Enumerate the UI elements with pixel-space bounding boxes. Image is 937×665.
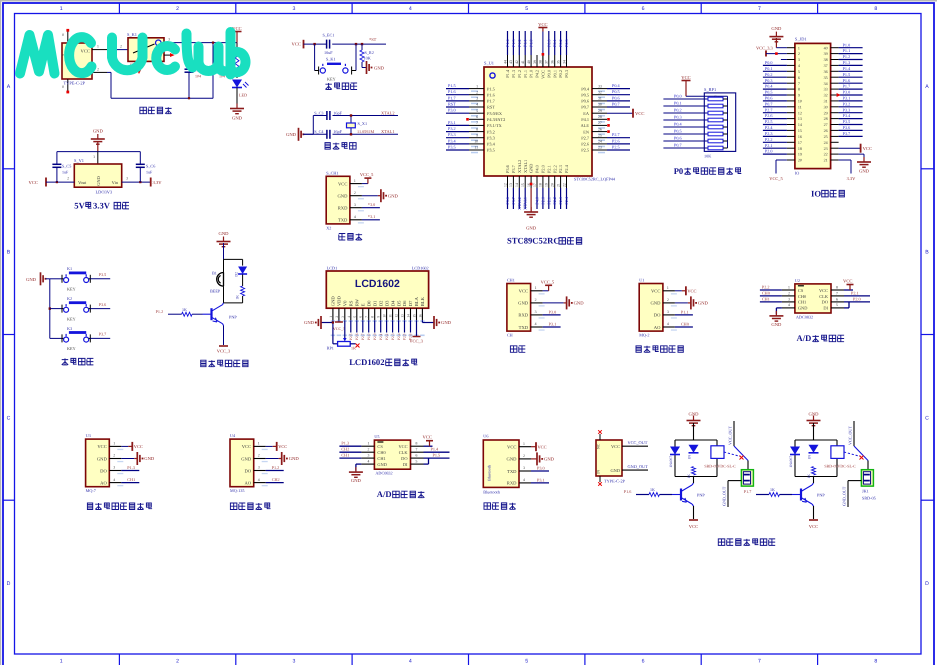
svg-text:S_JD1: S_JD1 [795,37,807,42]
svg-text:29: 29 [598,109,602,113]
svg-text:3: 3 [113,466,115,470]
svg-text:8: 8 [798,87,800,92]
svg-text:P3.1: P3.1 [549,321,557,326]
svg-text:CH1: CH1 [507,278,515,283]
svg-text:7: 7 [476,121,478,125]
svg-text:GND: GND [388,193,399,198]
svg-text:VCC: VCC [519,289,528,294]
svg-text:5: 5 [798,69,800,74]
svg-text:P0.2: P0.2 [558,39,563,47]
svg-text:U1: U1 [639,278,644,283]
svg-text:1: 1 [476,84,478,88]
svg-text:TYPE-C-2P: TYPE-C-2P [64,81,86,86]
svg-text:GND: GND [518,301,529,306]
svg-text:21: 21 [824,158,828,163]
svg-text:VCC_5: VCC_5 [333,326,345,331]
svg-text:KEY: KEY [327,77,336,82]
svg-text:20: 20 [798,158,802,163]
svg-text:P2.6: P2.6 [612,138,620,143]
svg-text:6: 6 [359,316,363,318]
svg-text:VCC: VCC [338,181,347,186]
svg-text:P3.0/RX: P3.0/RX [487,111,503,116]
svg-text:1: 1 [258,442,260,446]
svg-text:7: 7 [758,659,761,665]
svg-text:4: 4 [476,103,478,107]
svg-text:1: 1 [60,659,63,665]
svg-text:P1.3: P1.3 [843,60,851,65]
svg-text:2: 2 [113,454,115,458]
svg-text:22: 22 [824,152,828,157]
svg-text:P1.5: P1.5 [433,453,441,458]
svg-text:P3.6: P3.6 [505,197,510,205]
svg-text:ADC0832: ADC0832 [375,471,392,476]
svg-text:P2.1: P2.1 [765,143,773,148]
svg-text:MQ-2: MQ-2 [639,333,649,338]
svg-text:P0.5: P0.5 [581,92,589,97]
svg-text:P0.2: P0.2 [765,72,773,77]
svg-text:P2.2: P2.2 [552,197,557,205]
svg-text:22: 22 [562,183,566,187]
svg-text:K3: K3 [67,326,72,331]
svg-text:39: 39 [824,51,828,56]
svg-text:VCC_3: VCC_3 [217,348,231,353]
svg-text:28: 28 [598,115,602,119]
svg-text:20: 20 [551,183,555,187]
svg-text:1N4007: 1N4007 [789,456,793,468]
svg-text:1K: 1K [182,307,187,312]
svg-text:XTAL2: XTAL2 [381,110,395,115]
svg-text:S_R2: S_R2 [365,50,374,55]
svg-text:3: 3 [367,454,369,458]
svg-text:40: 40 [527,60,531,64]
svg-text:P1.6: P1.6 [843,78,851,83]
svg-text:P1.2: P1.2 [272,465,280,470]
svg-text:S_C6: S_C6 [146,164,155,169]
svg-text:23: 23 [598,146,602,150]
svg-text:18: 18 [539,183,543,187]
svg-text:Bluetooth: Bluetooth [483,489,500,494]
svg-text:S_C5: S_C5 [62,164,71,169]
svg-text:5: 5 [476,109,478,113]
svg-text:RST: RST [448,102,456,107]
svg-text:KEY: KEY [67,287,76,292]
svg-text:3: 3 [523,466,525,470]
svg-text:31: 31 [598,97,602,101]
svg-text:P2.3: P2.3 [765,131,773,136]
svg-text:10: 10 [474,140,478,144]
svg-text:LCD1602: LCD1602 [349,357,384,367]
svg-text:4: 4 [523,478,525,482]
svg-text:P2.0: P2.0 [853,296,861,301]
svg-text:A/D: A/D [797,333,812,343]
svg-text:7: 7 [836,291,838,295]
svg-text:C: C [925,415,929,421]
svg-text:P3.3: P3.3 [487,135,495,140]
svg-text:P2.3: P2.3 [391,333,395,340]
svg-text:GND: GND [337,194,348,199]
svg-text:GND: GND [798,306,808,311]
svg-text:104: 104 [195,73,201,78]
svg-text:GND: GND [526,226,537,231]
svg-text:26: 26 [824,128,828,133]
svg-text:ALE: ALE [581,123,590,128]
svg-text:VCC: VCC [681,75,690,80]
svg-text:3.3V: 3.3V [93,200,111,210]
svg-text:24: 24 [824,140,828,145]
svg-text:P3.2: P3.2 [487,129,495,134]
svg-text:VCC: VCC [541,70,546,79]
svg-text:3.3V: 3.3V [847,176,856,181]
svg-text:VCC_5: VCC_5 [769,176,783,181]
svg-text:36: 36 [551,60,555,64]
svg-text:VCC: VCC [507,445,516,450]
svg-text:P4.2: P4.2 [535,70,540,78]
svg-text:31: 31 [824,99,828,104]
svg-text:10K: 10K [364,56,371,61]
svg-text:V0: V0 [343,300,348,306]
svg-text:25: 25 [598,133,602,137]
svg-text:GND: GND [232,116,243,121]
svg-text:NC: NC [597,443,601,449]
svg-text:P2.2: P2.2 [762,284,770,289]
svg-text:RS: RS [349,300,354,306]
svg-text:D3: D3 [384,300,389,306]
svg-text:IN: IN [597,470,601,474]
svg-text:P1.1: P1.1 [681,309,689,314]
svg-text:P0.0: P0.0 [765,60,773,65]
svg-text:P0.3: P0.3 [674,115,682,120]
svg-text:IO: IO [811,188,821,198]
svg-text:P3.7: P3.7 [99,332,107,337]
svg-text:10: 10 [798,99,802,104]
svg-text:P1.2: P1.2 [843,54,851,59]
svg-text:VCC: VCC [538,22,547,27]
svg-text:D4: D4 [390,300,395,306]
svg-text:P0.2: P0.2 [558,70,563,78]
svg-text:6: 6 [476,115,478,119]
svg-text:TXD: TXD [507,469,517,474]
svg-text:P1.0: P1.0 [843,42,851,47]
svg-text:D1: D1 [372,300,377,306]
svg-text:2: 2 [335,316,339,318]
svg-text:GND_OUT: GND_OUT [722,486,727,506]
svg-text:DO: DO [245,468,252,473]
svg-text:P2.1: P2.1 [851,290,859,295]
svg-text:7: 7 [416,448,418,452]
svg-text:1K: 1K [650,487,655,492]
svg-text:14: 14 [798,122,802,127]
svg-text:1K: 1K [807,474,811,479]
svg-text:GND: GND [859,169,870,174]
svg-text:P0.6: P0.6 [581,99,590,104]
svg-text:P2.1: P2.1 [546,197,551,205]
svg-text:2: 2 [354,191,356,195]
svg-text:1: 1 [788,285,790,289]
svg-text:P0.0: P0.0 [546,39,551,47]
svg-text:P0.7: P0.7 [674,143,682,148]
svg-text:4: 4 [798,63,800,68]
svg-text:CS: CS [798,288,804,293]
svg-text:LCD1602: LCD1602 [355,278,400,290]
svg-text:RXD: RXD [507,481,517,486]
svg-text:TXD: TXD [338,218,348,223]
svg-text:1: 1 [329,316,333,318]
svg-text:PNP: PNP [229,315,237,320]
svg-text:3: 3 [292,6,295,12]
svg-text:17: 17 [798,140,802,145]
svg-text:10: 10 [383,314,387,318]
svg-text:P3.1: P3.1 [843,96,851,101]
svg-text:S_K1: S_K1 [127,32,137,37]
svg-text:15: 15 [412,314,416,318]
svg-text:U3: U3 [86,433,91,438]
svg-text:36: 36 [824,69,828,74]
svg-text:P3.7: P3.7 [511,164,516,173]
svg-text:Vout: Vout [78,180,87,185]
svg-text:P2.5: P2.5 [581,148,589,153]
svg-text:P0.0: P0.0 [546,70,551,78]
svg-text:P1.7: P1.7 [487,99,496,104]
svg-text:Bluetooth: Bluetooth [486,465,491,481]
svg-text:SRD-05: SRD-05 [862,496,876,501]
svg-text:P2.2: P2.2 [385,333,389,340]
svg-text:38: 38 [539,60,543,64]
svg-text:7: 7 [798,81,800,86]
svg-text:P3.3: P3.3 [448,132,456,137]
svg-text:11.0592M: 11.0592M [357,129,374,134]
svg-text:P1.2: P1.2 [517,39,522,47]
svg-text:CH1: CH1 [127,477,135,482]
svg-text:3: 3 [476,97,478,101]
svg-text:P2.7: P2.7 [361,333,365,340]
svg-text:MQ-135: MQ-135 [230,488,244,493]
svg-text:8: 8 [874,659,877,665]
svg-text:STC89C52RC_LQFP44: STC89C52RC_LQFP44 [574,177,616,182]
svg-text:XTAL1: XTAL1 [523,160,528,173]
svg-text:P3.1/TX: P3.1/TX [487,123,503,128]
svg-text:P2.4: P2.4 [564,196,569,204]
svg-text:CH0: CH0 [798,294,807,299]
svg-text:GND: GND [331,296,336,307]
svg-text:32: 32 [598,90,602,94]
svg-text:25: 25 [824,134,828,139]
svg-text:SRD-05VDC-SL-C: SRD-05VDC-SL-C [824,463,856,468]
svg-text:3.3V: 3.3V [153,180,163,185]
svg-text:DO: DO [654,313,661,318]
svg-text:13: 13 [798,116,802,121]
svg-text:S_CH1: S_CH1 [326,170,338,175]
svg-text:LDO3V3: LDO3V3 [96,190,113,195]
svg-text:1: 1 [798,45,800,50]
svg-text:BLK: BLK [420,296,425,306]
svg-text:3: 3 [258,466,260,470]
svg-text:VCC_5: VCC_5 [541,279,555,284]
svg-text:3: 3 [788,297,790,301]
svg-text:P1.3: P1.3 [511,39,516,47]
svg-text:37: 37 [545,60,549,64]
svg-text:1uF: 1uF [146,170,153,175]
svg-text:X2: X2 [326,225,331,230]
svg-text:GND_OUT: GND_OUT [628,464,649,469]
svg-text:1: 1 [97,45,99,49]
svg-text:14: 14 [515,183,519,187]
svg-text:P3.0: P3.0 [843,90,851,95]
svg-text:18: 18 [798,146,802,151]
svg-text:4: 4 [367,460,369,464]
svg-text:P0.4: P0.4 [674,122,682,127]
svg-text:D5: D5 [396,300,401,306]
svg-text:GND: GND [610,468,620,473]
svg-text:CH1: CH1 [341,453,349,458]
svg-text:15: 15 [521,183,525,187]
svg-text:D0: D0 [366,300,371,306]
svg-text:B: B [925,250,929,256]
svg-text:34: 34 [824,81,828,86]
svg-text:P1.3: P1.3 [511,70,516,78]
svg-text:STC89C52RC: STC89C52RC [507,236,560,246]
svg-text:XTAL1: XTAL1 [381,129,395,134]
svg-text:MQ-7: MQ-7 [86,488,96,493]
svg-text:33: 33 [598,84,602,88]
svg-text:GND: GND [650,301,661,306]
svg-text:B: B [7,250,11,256]
svg-text:19: 19 [545,183,549,187]
svg-text:CLK: CLK [819,294,829,299]
svg-text:4: 4 [535,322,537,326]
svg-text:CH0: CH0 [377,450,386,455]
svg-text:S_EC1: S_EC1 [323,32,335,37]
svg-text:P0.6: P0.6 [612,95,620,100]
svg-text:KEY: KEY [67,316,76,321]
svg-text:P0.4: P0.4 [765,84,773,89]
svg-text:1: 1 [523,442,525,446]
svg-text:2: 2 [258,454,260,458]
svg-text:P1.4: P1.4 [505,39,510,47]
svg-text:CH0: CH0 [681,321,689,326]
svg-text:P1.6: P1.6 [487,92,496,97]
svg-text:9: 9 [798,93,800,98]
svg-text:2: 2 [667,298,669,302]
svg-text:GND: GND [96,176,101,186]
svg-text:VCC: VCC [538,445,547,450]
svg-text:ADC0832: ADC0832 [796,315,813,320]
svg-text:GND: GND [93,129,104,134]
svg-text:P0.3: P0.3 [564,70,569,78]
svg-text:4: 4 [354,215,356,219]
svg-text:P1.3: P1.3 [127,465,135,470]
svg-text:5: 5 [416,460,418,464]
svg-text:P2.0: P2.0 [373,333,377,340]
svg-text:GND: GND [144,456,155,461]
svg-text:5: 5 [836,303,838,307]
svg-text:16pF: 16pF [333,110,342,115]
svg-text:2: 2 [367,448,369,452]
svg-text:P2.5: P2.5 [349,333,353,340]
svg-text:16: 16 [418,314,422,318]
svg-text:1: 1 [667,286,669,290]
svg-text:P4.0: P4.0 [535,165,540,173]
svg-text:11: 11 [389,314,393,318]
svg-text:TXD: TXD [519,325,529,330]
svg-text:16: 16 [798,134,802,139]
svg-text:VCC_OUT: VCC_OUT [628,440,648,445]
svg-text:VCC: VCC [81,49,90,54]
svg-text:P0.7: P0.7 [612,102,620,107]
svg-text:P4.0: P4.0 [535,197,540,205]
svg-text:8: 8 [476,127,478,131]
svg-text:XTAL2: XTAL2 [517,160,522,173]
svg-text:P0.7: P0.7 [581,105,590,110]
svg-text:2: 2 [67,177,69,181]
svg-text:DI: DI [403,462,408,467]
svg-text:2: 2 [535,298,537,302]
svg-text:P2.1: P2.1 [379,333,383,340]
svg-text:GND_OUT: GND_OUT [842,486,847,506]
svg-text:GND: GND [698,301,709,306]
svg-text:DO: DO [401,456,407,461]
svg-text:P1.7: P1.7 [448,95,456,100]
svg-text:3: 3 [535,310,537,314]
svg-text:12: 12 [503,183,507,187]
svg-text:P0.1: P0.1 [765,66,773,71]
svg-text:P0.6: P0.6 [765,96,773,101]
svg-text:VCC: VCC [651,289,660,294]
svg-text:7: 7 [365,316,369,318]
svg-text:*ST: *ST [369,37,377,42]
svg-text:2: 2 [523,454,525,458]
svg-text:PNP: PNP [697,493,705,498]
svg-text:GND: GND [286,132,297,137]
svg-text:1K: 1K [351,346,356,351]
svg-text:11: 11 [798,104,802,109]
svg-text:P1.0: P1.0 [367,333,371,340]
svg-text:S_C4: S_C4 [314,129,324,134]
svg-text:P3.1: P3.1 [537,477,545,482]
svg-text:E: E [360,303,365,306]
svg-text:CH0: CH0 [762,290,770,295]
svg-text:4: 4 [409,6,412,12]
svg-text:Vin: Vin [112,180,119,185]
svg-text:P0.5: P0.5 [765,90,773,95]
svg-text:VCC: VCC [689,524,698,529]
svg-text:A: A [925,84,929,90]
svg-text:6: 6 [836,297,838,301]
svg-text:8: 8 [416,442,418,446]
svg-text:EA: EA [583,111,590,116]
svg-text:16pF: 16pF [333,129,342,134]
svg-text:XTAL1: XTAL1 [523,197,528,210]
svg-text:LED: LED [239,93,247,98]
svg-text:BEEP: BEEP [210,289,221,294]
svg-text:P3.4: P3.4 [448,138,456,143]
svg-text:VCC: VCC [809,524,818,529]
svg-text:S_U1: S_U1 [484,61,494,66]
svg-text:RP1: RP1 [327,346,334,351]
svg-text:P1.4: P1.4 [431,447,439,452]
svg-text:17: 17 [533,183,537,187]
svg-text:VCC: VCC [843,279,852,284]
svg-text:KEY: KEY [67,346,76,351]
svg-text:P2.7: P2.7 [765,107,773,112]
svg-text:RST: RST [487,105,495,110]
svg-text:P2.1: P2.1 [546,165,551,173]
svg-text:6: 6 [642,659,645,665]
svg-text:AO: AO [245,480,252,485]
svg-text:DI: DI [823,306,828,311]
svg-text:26: 26 [598,127,602,131]
svg-text:P1.6: P1.6 [624,489,632,494]
svg-text:D2: D2 [378,300,383,306]
